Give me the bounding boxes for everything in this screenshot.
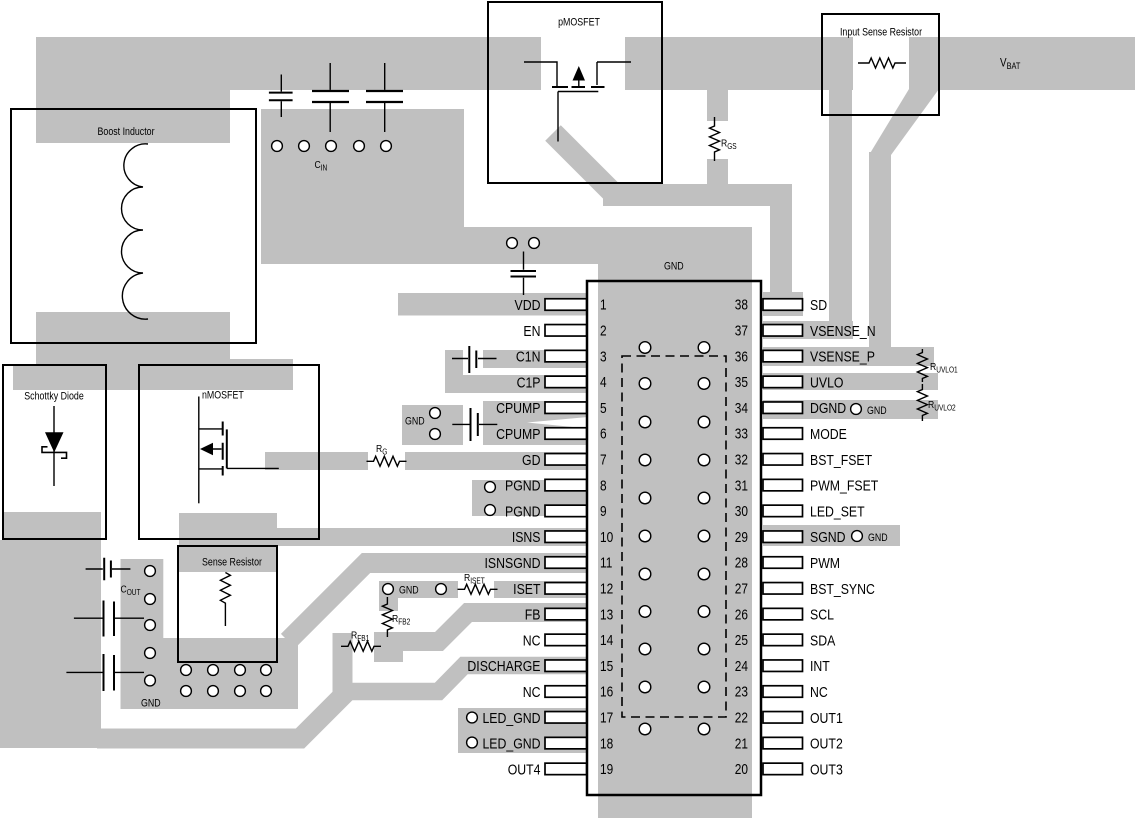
svg-text:34: 34 — [735, 400, 748, 416]
svg-text:LED_GND: LED_GND — [482, 735, 540, 751]
pin 6 CPUMP — [545, 428, 587, 440]
svg-text:7: 7 — [600, 451, 607, 467]
pin 14 NC — [545, 634, 587, 646]
svg-text:35: 35 — [735, 374, 748, 390]
wire LED_GND block pins 17 and 18 — [458, 708, 587, 753]
component box Schottky Diode — [3, 365, 106, 539]
wire GD trace right of RG — [405, 452, 587, 470]
capacitor CIN cap 2 — [312, 63, 349, 132]
svg-text:10: 10 — [600, 529, 613, 545]
svg-text:C1P: C1P — [517, 374, 541, 390]
wire ISET trace — [494, 581, 587, 598]
svg-text:RUVLO1: RUVLO1 — [930, 361, 958, 374]
wire sense resistor bottom pad — [162, 640, 298, 662]
wire VDD trace — [398, 293, 587, 316]
thermal pad dashed outline — [622, 356, 726, 717]
component box Boost Inductor — [11, 109, 256, 343]
wire VBAT pour above boost inductor — [36, 37, 230, 143]
wire nMOSFET source to sense resistor — [179, 513, 277, 572]
svg-text:PGND: PGND — [505, 477, 541, 493]
svg-text:OUT1: OUT1 — [810, 710, 843, 726]
wire GND plane CIN block — [261, 109, 464, 264]
via pair VDD bypass — [507, 238, 540, 249]
svg-text:18: 18 — [600, 735, 613, 751]
svg-text:9: 9 — [600, 503, 607, 519]
pin 5 CPUMP — [545, 402, 587, 414]
wire CPUMP white notch — [527, 417, 588, 429]
pin 18 LED_GND — [545, 737, 587, 749]
via array COUT — [145, 566, 156, 686]
wire VBAT top rail middle segment — [625, 37, 853, 90]
svg-text:8: 8 — [600, 477, 607, 493]
svg-text:ISNS: ISNS — [512, 529, 541, 545]
wire CPUMP traces pins 5 and 6 — [483, 401, 587, 445]
pin 15 DISCHARGE — [545, 660, 587, 672]
pin 1 VDD — [545, 299, 587, 311]
svg-text:PGND: PGND — [505, 503, 541, 519]
wire column GND block to RFB2 — [379, 595, 398, 611]
pin 25 SDA — [763, 634, 803, 646]
pin 29 SGND — [763, 531, 803, 543]
svg-text:RUVLO2: RUVLO2 — [928, 399, 956, 412]
svg-text:CPUMP: CPUMP — [496, 400, 540, 416]
wire pMOSFET gate diagonal — [553, 133, 614, 194]
svg-text:GD: GD — [522, 452, 541, 468]
pin 23 NC — [763, 686, 803, 698]
pin 13 FB — [545, 608, 587, 620]
svg-text:33: 33 — [735, 426, 748, 442]
svg-text:EN: EN — [523, 323, 540, 339]
wire switch node band right part — [229, 359, 293, 390]
resistor Rsense sense resistor symbol — [220, 573, 230, 627]
svg-text:22: 22 — [735, 709, 748, 725]
wire switch node band across Schottky and nMOSFET — [13, 366, 230, 391]
svg-text:SGND: SGND — [810, 529, 846, 545]
wire COUT output column — [121, 559, 164, 709]
transistor Q2 nMOSFET symbol — [199, 397, 279, 504]
component box nMOSFET — [139, 365, 319, 539]
via DGND — [851, 404, 862, 415]
svg-text:Boost Inductor: Boost Inductor — [97, 126, 155, 138]
svg-text:RISET: RISET — [464, 572, 485, 585]
svg-text:NC: NC — [523, 684, 541, 700]
wire UVLO trace — [763, 373, 938, 390]
pin 2 EN — [545, 325, 587, 337]
component box Sense Resistor — [178, 546, 277, 662]
svg-text:MODE: MODE — [810, 426, 847, 442]
pin 3 C1N — [545, 350, 587, 362]
svg-text:RG: RG — [376, 443, 388, 456]
svg-text:30: 30 — [735, 503, 748, 519]
svg-text:37: 37 — [735, 322, 748, 338]
wire ISNSGND trace and diagonal to GND pour — [288, 563, 587, 641]
wire PGND block pins 8 and 9 — [472, 480, 587, 516]
pin 4 C1P — [545, 376, 587, 388]
wire boost inductor bottom pour — [36, 312, 230, 390]
wire RGS lower segment — [707, 159, 728, 206]
svg-text:nMOSFET: nMOSFET — [202, 390, 244, 402]
wire FB trace with diagonal to divider — [374, 613, 587, 642]
wire C1N cap left tab and column to C1P — [445, 350, 463, 393]
component box pMOSFET — [488, 2, 662, 183]
capacitor C1 flying cap at C1N — [452, 346, 497, 373]
pin 33 MODE — [763, 428, 803, 440]
via SGND — [852, 531, 863, 542]
wire ISET GND block — [379, 581, 458, 598]
svg-text:28: 28 — [735, 555, 748, 571]
svg-text:RGS: RGS — [721, 138, 737, 151]
pin 28 PWM — [763, 557, 803, 569]
svg-text:BST_FSET: BST_FSET — [810, 452, 873, 468]
pin 31 PWM_FSET — [763, 479, 803, 491]
diode D1 Schottky symbol — [42, 406, 67, 486]
resistor RGS gate-source resistor — [710, 117, 720, 161]
wire RGS upper segment — [707, 89, 728, 121]
wire CPUMP GND block — [402, 405, 463, 445]
pin 22 OUT1 — [763, 712, 803, 724]
svg-text:14: 14 — [600, 632, 613, 648]
pin 27 BST_SYNC — [763, 583, 803, 595]
pin 26 SCL — [763, 608, 803, 620]
svg-text:5: 5 — [600, 400, 607, 416]
svg-text:Sense Resistor: Sense Resistor — [202, 557, 263, 569]
svg-text:GND: GND — [399, 585, 419, 597]
thermal pad via array — [639, 342, 710, 735]
svg-text:GND: GND — [664, 261, 684, 273]
svg-text:Input Sense Resistor: Input Sense Resistor — [840, 27, 923, 39]
wire input sense resistor right diagonal — [869, 89, 939, 155]
svg-text:C1N: C1N — [516, 348, 541, 364]
svg-text:4: 4 — [600, 374, 607, 390]
wire output pour bottom left — [0, 540, 101, 748]
svg-text:GND: GND — [141, 698, 161, 710]
svg-text:31: 31 — [735, 477, 748, 493]
capacitor CIN cap 1 — [269, 75, 293, 118]
svg-text:INT: INT — [810, 658, 830, 674]
transistor Q1 pMOSFET symbol — [524, 62, 631, 142]
wire VBAT top rail left segment — [36, 37, 541, 90]
wire GD trace left of RG — [265, 452, 368, 470]
op-amp U1 IC outline 38-pin — [587, 281, 761, 795]
svg-text:3: 3 — [600, 348, 607, 364]
svg-text:ISET: ISET — [513, 581, 541, 597]
wire Schottky diode cathode pour — [4, 512, 101, 540]
svg-text:OUT3: OUT3 — [810, 761, 843, 777]
capacitor VDD bypass cap — [511, 252, 537, 296]
pin 17 LED_GND — [545, 712, 587, 724]
via pair CPUMP GND — [430, 408, 441, 440]
svg-text:pMOSFET: pMOSFET — [558, 17, 600, 29]
svg-text:RFB1: RFB1 — [351, 630, 369, 643]
svg-text:ISNSGND: ISNSGND — [485, 555, 541, 571]
svg-text:12: 12 — [600, 580, 613, 596]
svg-text:LED_GND: LED_GND — [482, 710, 540, 726]
pin 8 PGND — [545, 479, 587, 491]
wire GND band CIN to IC — [464, 227, 752, 264]
resistor RUVLO1 vertical — [917, 349, 927, 382]
capacitor COUT cap 2 — [74, 601, 144, 637]
wire sense resistor top pad — [179, 546, 277, 572]
svg-text:BST_SYNC: BST_SYNC — [810, 581, 875, 597]
via pair LED_GND — [467, 712, 478, 748]
svg-text:29: 29 — [735, 529, 748, 545]
capacitor CIN cap 3 — [366, 63, 403, 132]
pin 7 GD — [545, 454, 587, 466]
svg-text:25: 25 — [735, 632, 748, 648]
svg-text:DGND: DGND — [810, 400, 846, 416]
svg-text:PWM_FSET: PWM_FSET — [810, 477, 879, 493]
svg-text:SD: SD — [810, 297, 827, 313]
resistor RG gate resistor — [367, 456, 407, 466]
wire GND pour under IC — [598, 227, 752, 818]
wire VSENSE_P trace — [763, 347, 934, 366]
svg-text:GND: GND — [868, 532, 888, 544]
inductor L1 boost inductor coil — [122, 144, 149, 319]
pin 20 OUT3 — [763, 763, 803, 775]
capacitor COUT cap 3 — [66, 654, 144, 691]
svg-text:17: 17 — [600, 709, 613, 725]
svg-text:OUT4: OUT4 — [508, 761, 541, 777]
via array sense resistor grid — [181, 665, 272, 697]
pin 37 VSENSE_N — [763, 325, 803, 337]
svg-text:15: 15 — [600, 658, 613, 674]
svg-text:2: 2 — [600, 322, 607, 338]
pin 12 ISET — [545, 583, 587, 595]
svg-text:FB: FB — [525, 606, 541, 622]
svg-text:19: 19 — [600, 761, 613, 777]
wire bottom OUT trace — [97, 633, 343, 739]
wire input sense right column to VSENSE_P — [869, 152, 891, 356]
svg-text:UVLO: UVLO — [810, 374, 843, 390]
svg-text:NC: NC — [523, 632, 541, 648]
wire SGND trace — [763, 525, 900, 546]
resistor RISET — [458, 584, 498, 594]
wire C1N trace — [483, 350, 587, 368]
svg-text:RFB2: RFB2 — [392, 613, 410, 626]
svg-text:11: 11 — [600, 555, 612, 571]
wire DISCHARGE trace to OUT column — [345, 666, 587, 692]
wire SD pin stub — [763, 292, 803, 316]
wire FB divider stub under RFB2 — [374, 650, 403, 662]
svg-text:NC: NC — [810, 684, 828, 700]
svg-text:VSENSE_P: VSENSE_P — [810, 348, 875, 364]
via pair ISET GND block — [383, 584, 447, 595]
pin 21 OUT2 — [763, 737, 803, 749]
svg-text:SDA: SDA — [810, 632, 836, 648]
pin 24 INT — [763, 660, 803, 672]
svg-text:27: 27 — [735, 580, 748, 596]
svg-text:GND: GND — [867, 405, 887, 417]
wire DGND trace — [763, 400, 938, 419]
pin 32 BST_FSET — [763, 454, 803, 466]
svg-text:36: 36 — [735, 348, 748, 364]
pin 30 LED_SET — [763, 505, 803, 517]
svg-text:1: 1 — [600, 297, 607, 313]
pin 9 PGND — [545, 505, 587, 517]
svg-text:CPUMP: CPUMP — [496, 426, 540, 442]
svg-text:LED_SET: LED_SET — [810, 503, 865, 519]
svg-text:20: 20 — [735, 761, 748, 777]
svg-text:16: 16 — [600, 684, 613, 700]
svg-text:PWM: PWM — [810, 555, 840, 571]
wire VSENSE_N trace — [763, 321, 853, 339]
svg-text:VSENSE_N: VSENSE_N — [810, 323, 876, 339]
wire input sense resistor left column to VSENSE_N — [829, 89, 852, 330]
capacitor CPUMP cap — [452, 408, 497, 441]
pin 19 OUT4 — [545, 763, 587, 775]
svg-text:24: 24 — [735, 658, 748, 674]
via pair PGND — [485, 482, 496, 516]
component box Input Sense Resistor — [822, 14, 939, 115]
pin 10 ISNS — [545, 531, 587, 543]
wire VBAT top rail right segment — [909, 37, 1135, 90]
svg-text:SCL: SCL — [810, 606, 834, 622]
pin 35 UVLO — [763, 376, 803, 388]
resistor R input sense symbol — [858, 58, 906, 68]
svg-text:DISCHARGE: DISCHARGE — [467, 658, 540, 674]
resistor RFB1 horizontal — [341, 641, 381, 651]
svg-text:VDD: VDD — [515, 297, 541, 313]
via array CIN — [272, 141, 392, 152]
svg-text:32: 32 — [735, 451, 748, 467]
pin 38 SD — [763, 299, 803, 311]
capacitor COUT cap 1 — [86, 558, 131, 580]
svg-text:6: 6 — [600, 426, 607, 442]
pin 11 ISNSGND — [545, 557, 587, 569]
svg-text:23: 23 — [735, 684, 748, 700]
pin 36 VSENSE_P — [763, 350, 803, 362]
svg-text:38: 38 — [735, 297, 748, 313]
wire GND pour around sense resistor vias — [121, 638, 298, 709]
pin 16 NC — [545, 686, 587, 698]
svg-text:26: 26 — [735, 606, 748, 622]
pin 34 DGND — [763, 402, 803, 414]
svg-text:GND: GND — [405, 416, 425, 428]
svg-text:Schottky Diode: Schottky Diode — [24, 391, 84, 403]
wire SD gate drive trace — [603, 195, 781, 298]
wire ISNS trace — [277, 528, 587, 546]
wire C1P trace — [445, 375, 587, 393]
svg-text:21: 21 — [735, 735, 748, 751]
svg-text:OUT2: OUT2 — [810, 735, 843, 751]
svg-text:13: 13 — [600, 606, 613, 622]
resistor RFB2 vertical — [382, 597, 392, 637]
resistor RUVLO2 vertical — [917, 384, 927, 421]
